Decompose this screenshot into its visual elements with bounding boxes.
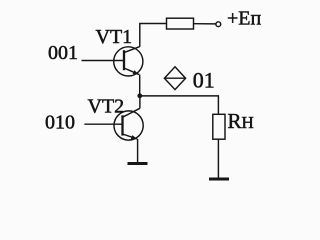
transistor VT1: [114, 47, 143, 76]
terminal +Ep: [216, 22, 221, 27]
svg-text:01: 01: [193, 68, 215, 93]
wire emitter VT1 to node: [139, 75, 141, 96]
node junction dot: [137, 93, 142, 98]
wire emitter VT2 to ground: [137, 139, 139, 163]
svg-text:VT2: VT2: [88, 95, 125, 117]
ground (left): [128, 162, 148, 165]
resistor R1 (top): [167, 18, 194, 29]
resistor Rn (load): [213, 114, 225, 139]
wire resistor to +Ep terminal: [194, 23, 216, 25]
wire collector VT1 to top rail: [140, 24, 167, 47]
wire node to collector VT2: [139, 96, 141, 109]
wire base VT2: [84, 123, 122, 125]
svg-text:VT1: VT1: [96, 26, 133, 48]
output symbol 01 (diamond): [164, 67, 185, 90]
wire node to load resistor: [140, 96, 219, 114]
svg-text:+Еп: +Еп: [227, 7, 261, 29]
svg-text:010: 010: [45, 112, 75, 134]
wire base VT1: [82, 60, 125, 62]
svg-text:001: 001: [48, 42, 78, 64]
wire Rn to ground: [217, 139, 219, 178]
svg-text:RН: RН: [228, 109, 254, 133]
ground (right): [209, 178, 229, 181]
transistor VT2: [114, 108, 143, 140]
